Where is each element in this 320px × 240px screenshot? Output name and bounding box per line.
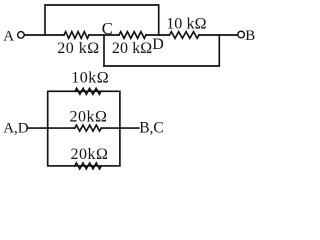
resistor R1 20k xyxy=(64,32,89,39)
resistor R5 20k middle branch xyxy=(75,125,102,131)
wire R3 to B xyxy=(199,34,237,36)
resistor R2 20k xyxy=(119,32,146,39)
node A terminal xyxy=(18,32,25,39)
svg-text:20 kΩ: 20 kΩ xyxy=(112,40,152,57)
node B terminal xyxy=(238,31,245,38)
wire middle branch right lead to B,C xyxy=(101,127,139,129)
svg-text:B: B xyxy=(245,28,255,44)
resistor R4 10k top branch xyxy=(75,88,101,94)
wire bottom box outline xyxy=(48,91,120,166)
svg-text:D: D xyxy=(152,36,164,53)
wire bottom box left lead A,D xyxy=(28,127,48,129)
svg-text:20kΩ: 20kΩ xyxy=(71,146,109,163)
svg-text:A,D: A,D xyxy=(3,120,29,136)
wire bottom bypass C to D-right xyxy=(104,35,219,66)
svg-text:20 kΩ: 20 kΩ xyxy=(57,40,99,57)
wire A to R1 xyxy=(25,34,64,36)
svg-text:C: C xyxy=(102,19,113,38)
node C junction drop xyxy=(103,35,105,66)
svg-text:20kΩ: 20kΩ xyxy=(70,109,108,126)
svg-text:A: A xyxy=(3,28,14,44)
wire R1 to R2 xyxy=(89,34,119,36)
wire top bypass rectangle xyxy=(45,5,159,35)
resistor R6 20k bottom branch xyxy=(75,163,102,169)
wire middle branch xyxy=(48,127,75,129)
svg-text:10 kΩ: 10 kΩ xyxy=(166,16,206,33)
svg-text:B,C: B,C xyxy=(139,120,164,137)
wire R2 to R3 xyxy=(146,34,170,36)
svg-text:10kΩ: 10kΩ xyxy=(71,70,109,87)
resistor R3 10k xyxy=(170,32,200,39)
